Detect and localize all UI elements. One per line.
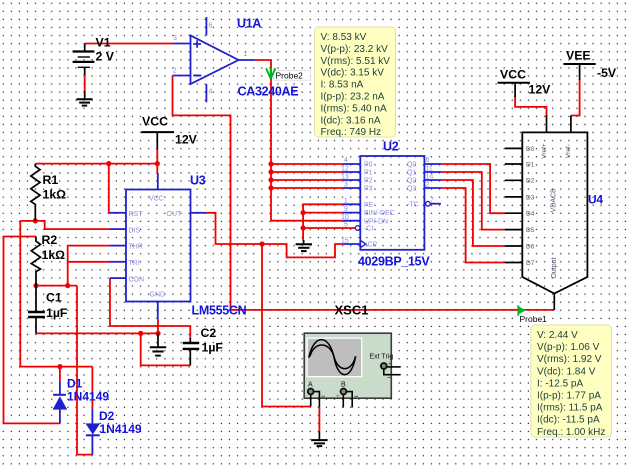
svg-text:9: 9 [344, 206, 348, 213]
svg-text:+: + [336, 394, 340, 400]
svg-text:D4: D4 [526, 211, 535, 218]
svg-text:1: 1 [244, 51, 248, 58]
svg-text:12: 12 [341, 165, 349, 172]
svg-text:+: + [388, 362, 392, 368]
svg-text:Output: Output [551, 257, 558, 278]
svg-text:2: 2 [426, 181, 430, 188]
svg-text:6: 6 [426, 157, 430, 164]
svg-text:CP: CP [368, 242, 378, 249]
svg-text:12V: 12V [175, 133, 198, 147]
svg-text:GND: GND [150, 292, 166, 299]
svg-text:I: 8.53 nA: I: 8.53 nA [321, 80, 364, 91]
svg-text:Ext Trig: Ext Trig [370, 354, 394, 361]
svg-text:VCC: VCC [142, 115, 168, 129]
svg-text:I(rms): 11.5 pA: I(rms): 11.5 pA [537, 403, 603, 414]
svg-text:D2: D2 [99, 409, 115, 423]
svg-text:OUT: OUT [167, 211, 183, 218]
svg-text:P0: P0 [364, 162, 373, 169]
svg-text:2: 2 [173, 68, 177, 75]
svg-text:D7: D7 [526, 260, 535, 267]
svg-text:1N4149: 1N4149 [67, 390, 109, 404]
svg-text:1: 1 [344, 198, 348, 205]
svg-text:V(p-p): 23.2 kV: V(p-p): 23.2 kV [321, 44, 389, 55]
svg-text:A: A [308, 382, 313, 389]
svg-text:Vref+: Vref+ [541, 143, 548, 159]
svg-text:V(p-p): 1.06 V: V(p-p): 1.06 V [537, 342, 600, 353]
svg-text:D1: D1 [526, 161, 535, 168]
svg-text:Q2: Q2 [407, 178, 416, 185]
svg-text:UP/-DN: UP/-DN [364, 218, 388, 225]
svg-text:I(p-p): 1.77 pA: I(p-p): 1.77 pA [537, 391, 601, 402]
svg-text:1µF: 1µF [202, 341, 224, 355]
svg-text:TRI: TRI [129, 260, 140, 267]
svg-text:U1A: U1A [237, 17, 261, 31]
svg-text:RST: RST [129, 211, 144, 218]
svg-text:V(dc): 3.15 kV: V(dc): 3.15 kV [321, 68, 385, 79]
svg-text:V(dc): 1.84 V: V(dc): 1.84 V [537, 366, 596, 377]
svg-text:VCC: VCC [500, 68, 526, 82]
svg-text:1N4149: 1N4149 [100, 422, 142, 436]
svg-text:Q0: Q0 [407, 162, 416, 169]
svg-text:THR: THR [129, 244, 143, 251]
svg-text:+: + [303, 394, 307, 400]
svg-text:12V: 12V [529, 83, 552, 97]
svg-text:LM555CN: LM555CN [192, 304, 247, 318]
svg-text:VEE: VEE [566, 49, 591, 63]
svg-text:D3: D3 [526, 194, 535, 201]
svg-text:D6: D6 [526, 243, 535, 250]
svg-text:I: -12.5 pA: I: -12.5 pA [537, 378, 583, 389]
svg-text:P2: P2 [364, 178, 373, 185]
svg-text:U3: U3 [190, 174, 206, 188]
svg-text:Freq.: 749 Hz: Freq.: 749 Hz [321, 127, 382, 138]
svg-text:C1: C1 [46, 291, 62, 305]
svg-text:-5V: -5V [597, 66, 617, 80]
svg-text:PE: PE [364, 202, 374, 209]
svg-text:D0: D0 [526, 146, 535, 153]
svg-text:B: B [341, 382, 346, 389]
svg-text:1µF: 1µF [46, 306, 68, 320]
svg-text:DIS: DIS [129, 227, 141, 234]
svg-text:7: 7 [430, 197, 434, 204]
svg-text:5: 5 [344, 221, 348, 228]
svg-text:R2: R2 [42, 233, 58, 247]
svg-text:CON: CON [129, 276, 145, 283]
svg-text:Probe1: Probe1 [520, 314, 548, 324]
svg-text:11: 11 [426, 165, 433, 172]
svg-text:CA3240AE: CA3240AE [238, 85, 299, 99]
svg-text:D2: D2 [526, 178, 535, 185]
svg-text:I(dc): 3.16 nA: I(dc): 3.16 nA [321, 115, 381, 126]
svg-text:15: 15 [341, 237, 349, 244]
svg-text:U2: U2 [383, 140, 399, 154]
svg-text:Q3: Q3 [407, 186, 416, 193]
svg-text:VDAC8: VDAC8 [551, 189, 558, 212]
svg-text:10: 10 [341, 214, 349, 221]
svg-text:P3: P3 [364, 186, 373, 193]
svg-text:6: 6 [209, 23, 213, 30]
svg-text:3: 3 [173, 35, 177, 42]
svg-text:Q1: Q1 [407, 170, 416, 177]
svg-text:U4: U4 [588, 193, 603, 207]
svg-text:Probe2: Probe2 [276, 71, 304, 81]
svg-text:13: 13 [341, 173, 349, 180]
svg-text:V: 2.44 V: V: 2.44 V [537, 330, 578, 341]
svg-text:4: 4 [344, 157, 348, 164]
svg-text:BIN/-DEC: BIN/-DEC [364, 210, 395, 217]
svg-text:2 V: 2 V [96, 50, 115, 64]
svg-text:VCC: VCC [149, 196, 164, 203]
svg-text:I(rms): 5.40 nA: I(rms): 5.40 nA [321, 103, 387, 114]
svg-text:Vref-: Vref- [565, 144, 572, 158]
svg-text:R1: R1 [43, 173, 59, 187]
svg-text:V: 8.53 kV: V: 8.53 kV [321, 32, 367, 43]
svg-text:XSC1: XSC1 [335, 303, 369, 318]
svg-text:I(p-p): 23.2 nA: I(p-p): 23.2 nA [321, 92, 385, 103]
svg-text:C2: C2 [201, 326, 217, 340]
svg-text:1kΩ: 1kΩ [42, 248, 66, 262]
svg-text:1kΩ: 1kΩ [43, 188, 67, 202]
svg-text:V(rms): 5.51 kV: V(rms): 5.51 kV [321, 56, 391, 67]
svg-text:D1: D1 [67, 377, 83, 391]
svg-text:P1: P1 [364, 170, 373, 177]
svg-text:4029BP_15V: 4029BP_15V [358, 255, 430, 269]
svg-text:-TC: -TC [407, 201, 419, 208]
svg-text:V(rms): 1.92 V: V(rms): 1.92 V [537, 354, 602, 365]
svg-text:Freq.: 1.00 kHz: Freq.: 1.00 kHz [537, 427, 605, 438]
svg-text:I(dc): -11.5 pA: I(dc): -11.5 pA [537, 415, 600, 426]
svg-text:D5: D5 [526, 227, 535, 234]
svg-text:14: 14 [426, 173, 434, 180]
svg-text:4: 4 [209, 89, 213, 96]
svg-text:V1: V1 [96, 36, 111, 50]
svg-text:-CI: -CI [364, 226, 373, 233]
svg-text:3: 3 [344, 181, 348, 188]
